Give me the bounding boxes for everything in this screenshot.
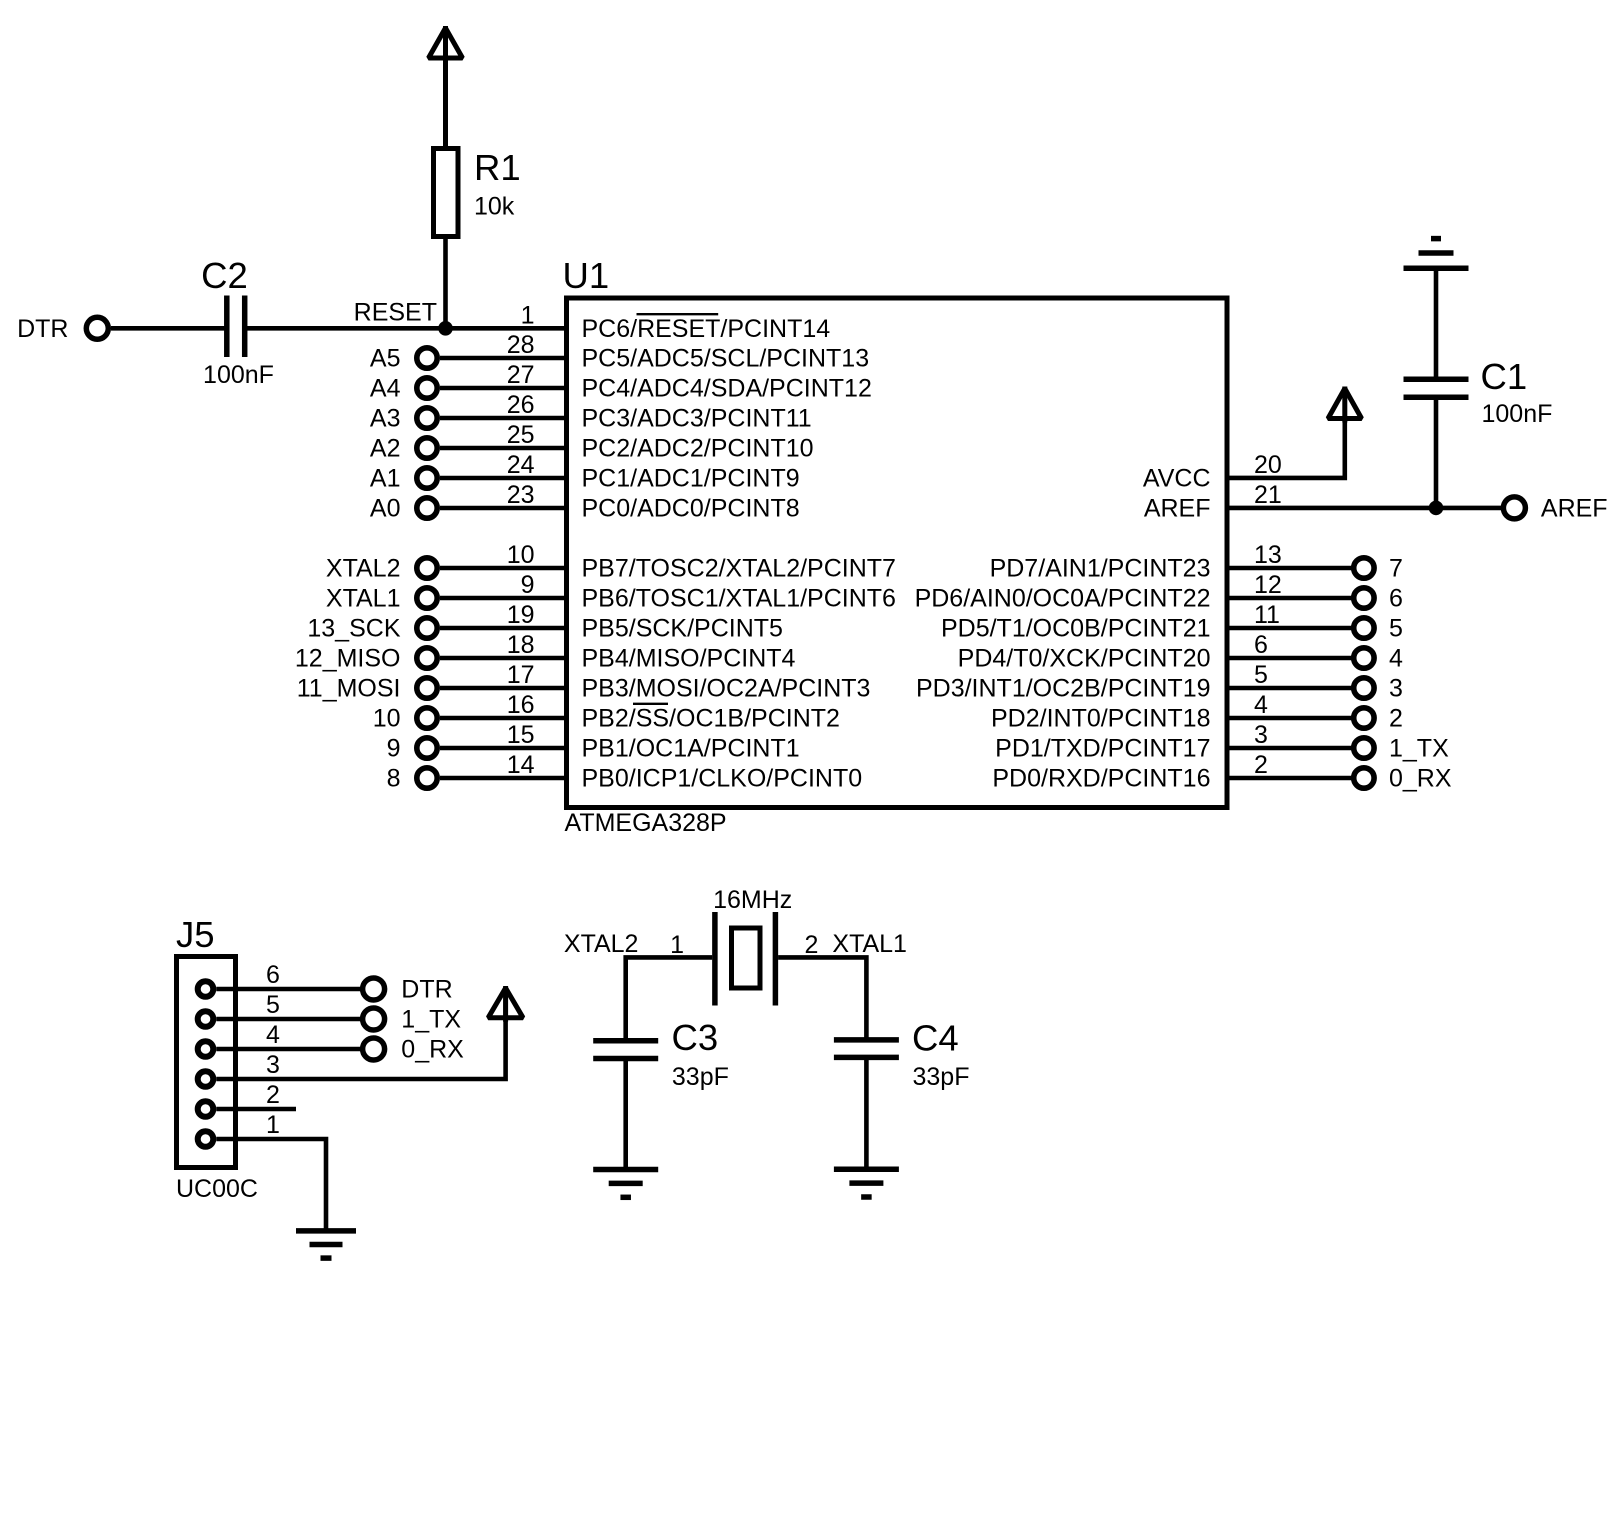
wire C4 to ground	[864, 1057, 869, 1169]
svg-text:6: 6	[1254, 631, 1268, 659]
svg-text:PD0/RXD/PCINT16: PD0/RXD/PCINT16	[992, 765, 1210, 793]
svg-text:ATMEGA328P: ATMEGA328P	[565, 809, 727, 837]
terminal 11_MOSI (pin 17)	[417, 678, 437, 698]
svg-text:10: 10	[507, 541, 535, 569]
svg-text:24: 24	[507, 451, 535, 479]
capacitor C4	[834, 1040, 899, 1058]
svg-text:PC0/ADC0/PCINT8: PC0/ADC0/PCINT8	[582, 495, 800, 523]
capacitor C2	[227, 296, 245, 358]
wire U1 pin 3 (PD1)	[1227, 746, 1353, 751]
wire XTAL2 to crystal pin 1	[626, 957, 713, 1038]
wire U1 pin 16 (PB2)	[440, 716, 567, 721]
svg-text:11: 11	[1254, 601, 1280, 629]
svg-text:16: 16	[507, 691, 535, 719]
wire J5 pin 5 to 1_TX	[216, 1017, 360, 1022]
svg-text:15: 15	[507, 721, 535, 749]
svg-text:1_TX: 1_TX	[401, 1006, 461, 1034]
svg-text:13: 13	[1254, 541, 1282, 569]
svg-text:PD3/INT1/OC2B/PCINT19: PD3/INT1/OC2B/PCINT19	[916, 675, 1211, 703]
terminal A0 (pin 23)	[417, 498, 437, 518]
wire U1 pin 19 (PB5)	[440, 626, 567, 631]
svg-text:PD5/T1/OC0B/PCINT21: PD5/T1/OC0B/PCINT21	[941, 615, 1211, 643]
wire U1 pin 11 (PD5)	[1227, 626, 1353, 631]
svg-text:5: 5	[1389, 615, 1403, 643]
wire U1 pin 25 (PC2)	[440, 446, 567, 451]
svg-text:XTAL1: XTAL1	[326, 585, 401, 613]
svg-text:DTR: DTR	[17, 315, 68, 343]
svg-text:7: 7	[1389, 555, 1403, 583]
resistor R1	[434, 149, 459, 237]
svg-text:100nF: 100nF	[1482, 400, 1553, 428]
wire C2 to U1 pin 1	[245, 326, 567, 331]
svg-text:25: 25	[507, 421, 535, 449]
svg-text:A4: A4	[370, 375, 401, 403]
wire J5 pin 1 to ground	[216, 1139, 326, 1231]
svg-text:PB6/TOSC1/XTAL1/PCINT6: PB6/TOSC1/XTAL1/PCINT6	[582, 585, 896, 613]
node AREF junction	[1429, 501, 1443, 515]
svg-text:PD1/TXD/PCINT17: PD1/TXD/PCINT17	[995, 735, 1210, 763]
svg-text:R1: R1	[474, 147, 521, 188]
svg-text:4: 4	[1254, 691, 1268, 719]
svg-text:AVCC: AVCC	[1143, 465, 1211, 493]
overline SS (pin 16 label)	[633, 703, 668, 705]
terminal DTR	[86, 317, 108, 339]
terminal A1 (pin 24)	[417, 468, 437, 488]
svg-text:A5: A5	[370, 345, 401, 373]
terminal AREF	[1503, 497, 1525, 519]
wire U1 pin 6 (PD4)	[1227, 656, 1353, 661]
svg-text:A1: A1	[370, 465, 401, 493]
svg-text:AREF: AREF	[1144, 495, 1211, 523]
wire U1 pin 14 (PB0)	[440, 776, 567, 781]
svg-text:4: 4	[1389, 645, 1403, 673]
svg-text:14: 14	[507, 751, 535, 779]
svg-text:PD7/AIN1/PCINT23: PD7/AIN1/PCINT23	[990, 555, 1211, 583]
ground symbol (C4)	[834, 1169, 899, 1197]
terminal 3 (pin 5)	[1354, 678, 1374, 698]
wire J5 pin 3 to VCC	[216, 988, 505, 1079]
terminal 0_RX (J5)	[363, 1038, 385, 1060]
power symbol VCC (AVCC)	[1328, 387, 1362, 423]
wire U1 pin 17 (PB3)	[440, 686, 567, 691]
svg-text:UC00C: UC00C	[176, 1175, 258, 1203]
wire C3 to ground	[623, 1059, 628, 1170]
crystal Y1 body	[732, 928, 761, 988]
wire U1 pin 26 (PC3)	[440, 416, 567, 421]
svg-text:9: 9	[387, 735, 401, 763]
terminal 5 (pin 11)	[1354, 618, 1374, 638]
svg-text:RESET: RESET	[354, 299, 437, 327]
pad J5 pin 2	[198, 1101, 214, 1117]
svg-text:PD4/T0/XCK/PCINT20: PD4/T0/XCK/PCINT20	[958, 645, 1211, 673]
svg-text:A0: A0	[370, 495, 401, 523]
svg-text:PB0/ICP1/CLKO/PCINT0: PB0/ICP1/CLKO/PCINT0	[582, 765, 863, 793]
wire U1 pin 5 (PD3)	[1227, 686, 1353, 691]
wire VCC arrow to R1	[443, 60, 448, 149]
svg-text:20: 20	[1254, 451, 1282, 479]
svg-text:PD2/INT0/PCINT18: PD2/INT0/PCINT18	[991, 705, 1211, 733]
pad J5 pin 3	[198, 1071, 214, 1087]
wire U1 pin 27 (PC4)	[440, 386, 567, 391]
svg-text:33pF: 33pF	[913, 1063, 970, 1091]
svg-text:4: 4	[266, 1021, 280, 1049]
svg-text:2: 2	[266, 1081, 280, 1109]
svg-text:6: 6	[266, 961, 280, 989]
svg-text:12: 12	[1254, 571, 1282, 599]
svg-text:1: 1	[521, 301, 535, 329]
svg-text:21: 21	[1254, 481, 1282, 509]
terminal 4 (pin 6)	[1354, 648, 1374, 668]
power symbol VCC (top, above R1)	[429, 26, 463, 62]
ground symbol (J5 pin 1)	[296, 1231, 356, 1258]
pad J5 pin 1	[198, 1131, 214, 1147]
crystal Y1 right plate	[773, 912, 779, 1006]
svg-text:100nF: 100nF	[203, 361, 274, 389]
svg-text:PC2/ADC2/PCINT10: PC2/ADC2/PCINT10	[582, 435, 814, 463]
pad J5 pin 6	[198, 981, 214, 997]
svg-text:13_SCK: 13_SCK	[307, 615, 400, 643]
svg-text:23: 23	[507, 481, 535, 509]
terminal 1_TX (pin 3)	[1354, 738, 1374, 758]
terminal A2 (pin 25)	[417, 438, 437, 458]
svg-text:DTR: DTR	[401, 976, 452, 1004]
crystal Y1 left plate	[712, 912, 718, 1006]
terminal XTAL2 (pin 10)	[417, 558, 437, 578]
pad J5 pin 4	[198, 1041, 214, 1057]
svg-text:PB1/OC1A/PCINT1: PB1/OC1A/PCINT1	[582, 735, 800, 763]
wire AREF (pin 21)	[1227, 506, 1501, 511]
wire U1 pin 28 (PC5)	[440, 356, 567, 361]
svg-text:9: 9	[521, 571, 535, 599]
node RESET junction	[439, 322, 453, 336]
wire U1 pin 24 (PC1)	[440, 476, 567, 481]
terminal A3 (pin 26)	[417, 408, 437, 428]
terminal A5 (pin 28)	[417, 348, 437, 368]
wire U1 pin 12 (PD6)	[1227, 596, 1353, 601]
svg-text:AREF: AREF	[1541, 495, 1608, 523]
wire ground to C1	[1434, 268, 1439, 377]
svg-text:PC3/ADC3/PCINT11: PC3/ADC3/PCINT11	[582, 405, 812, 433]
svg-text:C3: C3	[672, 1017, 719, 1058]
terminal 9 (pin 15)	[417, 738, 437, 758]
svg-text:A2: A2	[370, 435, 401, 463]
svg-text:C1: C1	[1481, 356, 1528, 397]
svg-text:5: 5	[1254, 661, 1268, 689]
svg-text:XTAL1: XTAL1	[832, 930, 907, 958]
svg-text:0_RX: 0_RX	[401, 1036, 464, 1064]
svg-text:PB7/TOSC2/XTAL2/PCINT7: PB7/TOSC2/XTAL2/PCINT7	[582, 555, 896, 583]
svg-text:1: 1	[670, 931, 684, 959]
capacitor C1	[1404, 379, 1469, 397]
svg-text:PD6/AIN0/OC0A/PCINT22: PD6/AIN0/OC0A/PCINT22	[915, 585, 1211, 613]
svg-text:A3: A3	[370, 405, 401, 433]
wire U1 pin 2 (PD0)	[1227, 776, 1353, 781]
terminal 7 (pin 13)	[1354, 558, 1374, 578]
wire U1 pin 4 (PD2)	[1227, 716, 1353, 721]
svg-text:PB4/MISO/PCINT4: PB4/MISO/PCINT4	[582, 645, 796, 673]
svg-text:2: 2	[805, 931, 819, 959]
svg-text:18: 18	[507, 631, 535, 659]
svg-text:XTAL2: XTAL2	[326, 555, 401, 583]
wire U1 pin 18 (PB4)	[440, 656, 567, 661]
wire DTR to C2	[111, 326, 227, 331]
wire C1 to AREF net	[1434, 397, 1439, 508]
svg-text:C2: C2	[201, 255, 248, 296]
pad J5 pin 5	[198, 1011, 214, 1027]
wire crystal pin 2 to XTAL1	[778, 957, 866, 1037]
svg-text:5: 5	[266, 991, 280, 1019]
connector J5 body	[177, 957, 236, 1168]
wire U1 pin 13 (PD7)	[1227, 566, 1353, 571]
svg-text:XTAL2: XTAL2	[564, 930, 639, 958]
svg-text:C4: C4	[912, 1018, 959, 1059]
svg-text:U1: U1	[563, 255, 610, 296]
terminal 2 (pin 4)	[1354, 708, 1374, 728]
svg-text:28: 28	[507, 331, 535, 359]
wire U1 pin 10 (PB7)	[440, 566, 567, 571]
wire J5 pin 4 to 0_RX	[216, 1047, 360, 1052]
terminal 8 (pin 14)	[417, 768, 437, 788]
svg-text:17: 17	[507, 661, 535, 689]
wire U1 pin 23 (PC0)	[440, 506, 567, 511]
svg-text:16MHz: 16MHz	[713, 886, 792, 914]
wire AVCC (pin 20)	[1227, 421, 1345, 478]
svg-text:3: 3	[1389, 675, 1403, 703]
power symbol VCC (J5 pin 3)	[488, 986, 523, 1022]
svg-text:11_MOSI: 11_MOSI	[297, 675, 401, 703]
svg-text:J5: J5	[176, 914, 215, 955]
capacitor C3	[593, 1041, 658, 1059]
IC U1 body (ATMEGA328P)	[567, 298, 1228, 808]
svg-text:PB3/MOSI/OC2A/PCINT3: PB3/MOSI/OC2A/PCINT3	[582, 675, 871, 703]
ground symbol (above C1)	[1404, 239, 1469, 269]
svg-text:6: 6	[1389, 585, 1403, 613]
svg-text:19: 19	[507, 601, 535, 629]
terminal 12_MISO (pin 18)	[417, 648, 437, 668]
wire U1 pin 9 (PB6)	[440, 596, 567, 601]
svg-text:8: 8	[387, 765, 401, 793]
svg-text:26: 26	[507, 391, 535, 419]
svg-text:1: 1	[266, 1111, 280, 1139]
terminal A4 (pin 27)	[417, 378, 437, 398]
svg-text:1_TX: 1_TX	[1389, 735, 1449, 763]
svg-text:PB5/SCK/PCINT5: PB5/SCK/PCINT5	[582, 615, 783, 643]
svg-text:27: 27	[507, 361, 535, 389]
terminal 1_TX (J5)	[363, 1008, 385, 1030]
svg-text:12_MISO: 12_MISO	[295, 645, 401, 673]
svg-text:PC5/ADC5/SCL/PCINT13: PC5/ADC5/SCL/PCINT13	[582, 345, 870, 373]
terminal DTR (J5)	[363, 978, 385, 1000]
terminal 13_SCK (pin 19)	[417, 618, 437, 638]
svg-text:PC6/RESET/PCINT14: PC6/RESET/PCINT14	[582, 315, 831, 343]
svg-text:33pF: 33pF	[672, 1063, 729, 1091]
svg-text:10k: 10k	[474, 193, 515, 221]
svg-text:3: 3	[266, 1051, 280, 1079]
ground symbol (C3)	[593, 1170, 658, 1198]
svg-text:10: 10	[373, 705, 401, 733]
terminal XTAL1 (pin 9)	[417, 588, 437, 608]
wire R1 to RESET node	[443, 239, 448, 330]
svg-text:0_RX: 0_RX	[1389, 765, 1452, 793]
svg-text:PC4/ADC4/SDA/PCINT12: PC4/ADC4/SDA/PCINT12	[582, 375, 872, 403]
terminal 10 (pin 16)	[417, 708, 437, 728]
terminal 0_RX (pin 2)	[1354, 768, 1374, 788]
terminal 6 (pin 12)	[1354, 588, 1374, 608]
wire U1 pin 15 (PB1)	[440, 746, 567, 751]
wire J5 pin 2 stub	[216, 1107, 296, 1112]
overline RESET (pin 1 label)	[637, 313, 719, 315]
svg-text:3: 3	[1254, 721, 1268, 749]
svg-text:2: 2	[1254, 751, 1268, 779]
svg-text:PB2/SS/OC1B/PCINT2: PB2/SS/OC1B/PCINT2	[582, 705, 840, 733]
svg-text:2: 2	[1389, 705, 1403, 733]
svg-text:PC1/ADC1/PCINT9: PC1/ADC1/PCINT9	[582, 465, 800, 493]
wire J5 pin 6 to DTR	[216, 987, 360, 992]
